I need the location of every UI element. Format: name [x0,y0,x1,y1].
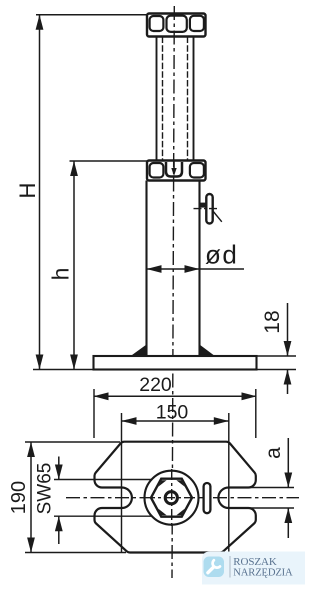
dimension H (overall height) [15,15,43,370]
threaded rod (spindle) [157,37,194,161]
node h top extension line [70,160,148,162]
logo separator [229,556,231,578]
svg-text:190: 190 [8,481,30,514]
wire handle pin centerline [194,208,220,210]
nut chamfer wedge bottom-left [158,509,166,516]
svg-text:150: 150 [156,402,189,424]
svg-text:H: H [15,183,40,199]
nut chamfer wedge top-left [158,480,166,487]
logo text NARZEDZIA [233,567,293,578]
dimension 220 (plate width) [94,374,257,438]
wire vertical centerline (both views) [172,6,174,578]
nut chamfer wedge top-right [176,480,184,487]
svg-text:220: 220 [139,374,172,396]
svg-text:18: 18 [261,310,284,333]
svg-text:NARZĘDZIA: NARZĘDZIA [233,567,293,578]
hex nut (plan view) [151,479,192,517]
svg-text:h: h [48,268,74,281]
dimension od (tube diameter) [147,240,245,273]
dimension 18 (plate thickness) [257,303,297,394]
weld fillet right [200,345,215,356]
node H top extension line [36,14,147,16]
handle pin (tommy bar) [206,194,212,224]
svg-text:ød: ød [205,240,238,270]
node SW65 extension lines [54,480,160,517]
svg-text:SW65: SW65 [35,463,56,515]
wire horizontal centerline (plan view) [66,497,299,499]
nut chamfer wedge bottom-right [176,509,184,516]
node baseline extension [33,369,94,371]
dimension a (slot width) [262,438,292,538]
dimension SW65 (width across flats) [35,457,63,545]
dimension 190 (plate depth) [8,442,126,553]
handle pin boss [200,203,207,208]
svg-text:ROSZAK: ROSZAK [233,556,277,568]
dimension h (tube height) [48,161,78,370]
logo background band [202,552,305,585]
wire leader tick [213,211,222,222]
base plate (side view) [94,356,257,370]
tube (support body) [147,181,200,357]
base plate outline (plan view) [94,442,255,553]
logo icon tile [204,557,225,578]
tube outer circle (plan view) [145,471,199,525]
arrow screw-down indicator [171,161,176,176]
dimension 150 (flat width) [122,402,229,554]
top locknut on threaded rod [147,14,206,37]
wire crosshair centerlines over nut [144,469,200,527]
threaded rod bore (plan view) [165,492,177,504]
node a extension lines [250,488,294,509]
adjusting hex nut [147,161,206,181]
logo text ROSZAK [233,556,277,568]
logo wrench icon [208,560,220,573]
handle pin (plan view) [204,483,211,513]
svg-text:a: a [262,447,285,459]
weld fillet left [131,345,147,356]
